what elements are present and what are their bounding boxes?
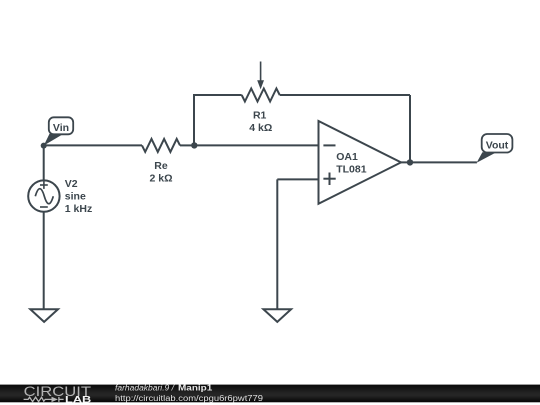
net label Vin: [44, 117, 73, 145]
voltage source plus mark: [40, 181, 48, 189]
svg-text:farhadakbari.9 /: farhadakbari.9 /: [115, 384, 175, 393]
svg-text:V2: V2: [65, 178, 78, 190]
wire junction to op-amp inverting input: [194, 144, 318, 146]
label R1 value: [249, 110, 272, 134]
svg-text:2 kΩ: 2 kΩ: [149, 172, 172, 184]
op-amp minus symbol: [323, 144, 335, 146]
svg-text:R1: R1: [253, 110, 267, 122]
svg-text:Manip1: Manip1: [178, 384, 213, 393]
svg-text:4 kΩ: 4 kΩ: [249, 122, 272, 134]
op-amp plus symbol: [323, 173, 335, 186]
ground left: [30, 309, 58, 322]
voltage source sine symbol: [35, 189, 53, 204]
wire source V2 down to ground: [43, 212, 45, 309]
svg-text:1 kHz: 1 kHz: [65, 203, 92, 215]
op-amp OA1 triangle: [319, 121, 402, 204]
svg-text:Vin: Vin: [53, 122, 69, 134]
logo resistor-diode glyph: [24, 397, 64, 402]
label OA1 value: [336, 151, 367, 176]
ground right: [263, 309, 291, 322]
wire junction up to feedback: [193, 95, 195, 145]
wire node Vin down to source V2: [43, 145, 45, 180]
wire node Vin to Re: [44, 144, 142, 146]
svg-text:OA1: OA1: [336, 151, 358, 163]
potentiometer R1 wiper arrow: [260, 62, 262, 82]
label Re value: [149, 160, 172, 184]
label V2 value: [65, 178, 92, 215]
wire Re to junction: [180, 144, 194, 146]
svg-text:Re: Re: [154, 160, 168, 172]
footer bar: [0, 385, 540, 403]
voltage source V2 circle: [28, 180, 59, 211]
wire op-amp output to Vout: [401, 161, 477, 163]
wire feedback top left segment: [193, 94, 242, 96]
svg-text:LAB: LAB: [65, 394, 92, 404]
resistor Re zigzag: [142, 139, 180, 152]
junction node dot: [191, 142, 197, 148]
node dot at Vin: [41, 143, 47, 149]
net label Vout: [477, 134, 513, 163]
potentiometer R1 zigzag: [242, 89, 280, 102]
voltage source minus mark: [40, 206, 48, 208]
wire feedback top right segment: [280, 94, 410, 96]
potentiometer R1 arrowhead: [257, 80, 264, 89]
svg-text:http://circuitlab.com/cpgu6r6p: http://circuitlab.com/cpgu6r6pwt779: [115, 394, 264, 403]
svg-text:TL081: TL081: [336, 163, 367, 175]
svg-text:Vout: Vout: [486, 139, 509, 151]
wire feedback down to output node: [409, 95, 411, 162]
wire non-inverting input down to ground: [276, 179, 278, 309]
svg-text:sine: sine: [65, 190, 86, 202]
output node dot: [407, 159, 413, 165]
wire op-amp non-inverting input: [277, 178, 318, 180]
